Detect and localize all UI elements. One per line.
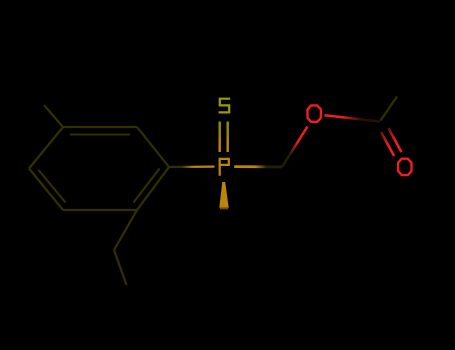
ethyl zigzag below ring segment 2 — [114, 250, 127, 285]
aromatic inner line parallel to top edge — [70, 133, 130, 135]
C=O double bond line 1 — [381, 132, 394, 156]
bond CH2 to ester O (two-tone olive/red) — [282, 127, 308, 168]
ethyl zigzag below ring segment 1 — [114, 210, 137, 250]
P=S double bond left line — [218, 122, 220, 153]
atom label P (plotter glyph) — [220, 159, 229, 176]
methyl stub from top-left vertex — [44, 105, 63, 127]
benzene ring edge C3-C4 (top-left to left vertex) — [29, 127, 63, 169]
benzene ring edge C2-C3 (top edge) — [63, 126, 137, 128]
bond ester O to carbonyl C (two-tone red/dark) — [325, 115, 381, 121]
C=O double bond line 2 — [388, 128, 401, 152]
benzene ring edge C4-C5 (left vertex to bottom-left) — [29, 169, 63, 211]
benzene ring edge C6-C1 (bottom-right to right vertex) — [137, 167, 169, 210]
aromatic inner line parallel to lower-left edge — [39, 170, 66, 203]
wedge bond P to methyl (solid wedge down) — [219, 182, 228, 208]
atom label O ester (plotter glyph octagon) — [308, 105, 321, 121]
atom label O carbonyl (plotter glyph octagon) — [398, 159, 411, 175]
bond P to CH2 (two-tone gold/olive) — [234, 165, 282, 168]
P=S double bond right line — [226, 122, 228, 153]
benzene ring edge C1-C2 (right vertex to top-right) — [137, 127, 169, 167]
bond ring to P (two-tone olive/gold) — [169, 165, 215, 168]
wedge bottom dark fade — [220, 208, 228, 210]
bond carbonyl C to methyl CH3 (dark olive) — [381, 97, 398, 121]
benzene ring edge C5-C6 (bottom edge) — [63, 209, 137, 211]
aromatic inner line parallel to lower-right edge — [134, 169, 160, 203]
atom label S (plotter glyph) — [219, 99, 231, 113]
